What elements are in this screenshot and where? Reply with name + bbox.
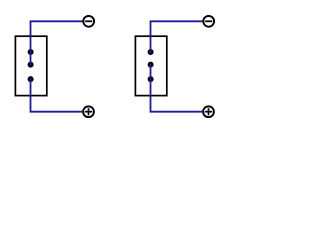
wire from middle pin of U2 to plus terminal T4	[151, 64, 203, 112]
component box U2	[135, 36, 166, 95]
wire from minus terminal T3 to top pin of U2	[151, 21, 203, 53]
wire from bottom pin of U1 to plus terminal T2	[31, 78, 83, 112]
component box U1	[15, 36, 46, 95]
negative terminal T1	[83, 16, 94, 27]
pin dot 1 of U1	[28, 49, 34, 55]
wire from minus terminal T1 to middle pin of U1	[31, 21, 83, 65]
pin dot 2 of U2	[148, 62, 154, 68]
pin dot 3 of U1	[28, 76, 34, 82]
positive terminal T2	[83, 106, 94, 117]
negative terminal T3	[203, 16, 214, 27]
pin dot 1 of U2	[148, 49, 154, 55]
pin dot 3 of U2	[148, 76, 154, 82]
positive terminal T4	[203, 106, 214, 117]
pin dot 2 of U1	[28, 62, 34, 68]
